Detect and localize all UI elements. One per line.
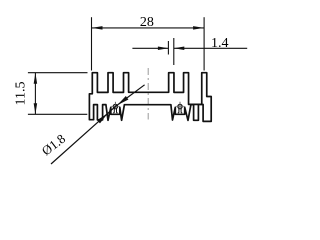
leader line for hole diameter xyxy=(51,85,145,164)
left hole horizontal center tick xyxy=(111,105,119,107)
dim 28 right arrowhead xyxy=(193,26,204,30)
dim 1.4 left arrowhead xyxy=(158,47,169,51)
dim 11.5 bottom extension line xyxy=(28,113,87,115)
right hole slit xyxy=(178,109,182,113)
dim 1.4 left line xyxy=(132,47,168,49)
dim 1.4 right arrowhead xyxy=(174,47,185,51)
centerline xyxy=(147,68,149,120)
right hole vertical center tick xyxy=(179,102,181,109)
dim 11.5 top extension line xyxy=(28,72,88,74)
dim 28 left extension line xyxy=(91,17,93,70)
right mounting hole xyxy=(178,104,182,108)
svg-text:28: 28 xyxy=(140,15,154,30)
dim 28 dimension line xyxy=(92,27,205,29)
dim 28 left arrowhead xyxy=(92,26,103,30)
dim 1.4 left tick xyxy=(167,41,169,55)
dim 11.5 bottom arrowhead xyxy=(34,103,38,114)
svg-text:11.5: 11.5 xyxy=(14,82,29,106)
dim 1.4 right tick xyxy=(173,38,175,65)
left mounting hole xyxy=(113,104,117,108)
leader lower arrowhead xyxy=(97,113,108,123)
heatsink body outline xyxy=(89,73,211,122)
dim 11.5 dimension line xyxy=(34,73,36,115)
leader upper arrowhead xyxy=(117,96,128,105)
right hole horizontal center tick xyxy=(176,105,184,107)
svg-text:1.4: 1.4 xyxy=(211,36,229,51)
dim 28 right extension line xyxy=(203,17,205,70)
dim 11.5 top arrowhead xyxy=(34,73,38,84)
left hole slit xyxy=(113,109,117,113)
left hole vertical center tick xyxy=(114,102,116,109)
dim 1.4 right line xyxy=(174,47,247,49)
